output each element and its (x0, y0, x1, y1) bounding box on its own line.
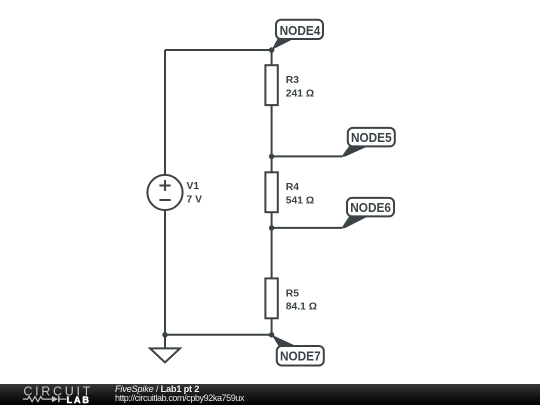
svg-text:LAB: LAB (67, 395, 91, 405)
NODE5 label box (348, 128, 395, 146)
wire right vertical R3 to R5 (271, 50, 273, 335)
wire left vertical upper (164, 50, 166, 176)
svg-text:R5: R5 (286, 288, 299, 299)
V1 plus sign (159, 180, 170, 191)
wire left vertical lower (164, 210, 166, 335)
CircuitLab logo diode (52, 396, 58, 402)
svg-text:NODE7: NODE7 (280, 348, 321, 363)
NODE7 flag pointer (272, 335, 296, 346)
CircuitLab logo resistor zigzag wire (23, 397, 67, 402)
node junction dot top (269, 47, 275, 53)
wire node6 stub (272, 227, 342, 229)
wire node5 stub (272, 155, 342, 157)
svg-text:NODE6: NODE6 (350, 200, 391, 215)
NODE7 label box (277, 346, 324, 366)
NODE4 label box (276, 20, 323, 39)
svg-text:NODE4: NODE4 (280, 23, 321, 38)
wire top horizontal (165, 49, 272, 51)
footer url line (115, 394, 244, 403)
svg-text:NODE5: NODE5 (351, 130, 392, 145)
NODE5 flag pointer (341, 146, 368, 157)
svg-text:7 V: 7 V (187, 195, 203, 206)
node junction dot bottom right (269, 332, 275, 338)
V1 minus sign (159, 199, 170, 201)
svg-text:241 Ω: 241 Ω (286, 88, 314, 99)
footer title line (115, 385, 199, 394)
resistor R5 body (265, 278, 277, 318)
voltage source V1 circle (147, 175, 182, 210)
svg-text:V1: V1 (187, 181, 200, 192)
NODE6 flag pointer (341, 217, 368, 229)
node junction dot node5 (269, 154, 275, 160)
NODE4 flag pointer (272, 39, 294, 50)
NODE6 label box (347, 198, 394, 217)
node junction dot node6 (269, 225, 275, 231)
footer black bar (0, 384, 540, 405)
svg-text:R3: R3 (286, 75, 299, 86)
ground symbol (150, 335, 180, 363)
node junction dot bottom left (162, 332, 168, 338)
svg-text:R4: R4 (286, 182, 299, 193)
wire bottom horizontal (165, 334, 272, 336)
resistor R3 body (265, 65, 277, 105)
svg-text:84.1 Ω: 84.1 Ω (286, 302, 317, 313)
svg-text:541 Ω: 541 Ω (286, 196, 314, 207)
resistor R4 body (265, 172, 277, 212)
